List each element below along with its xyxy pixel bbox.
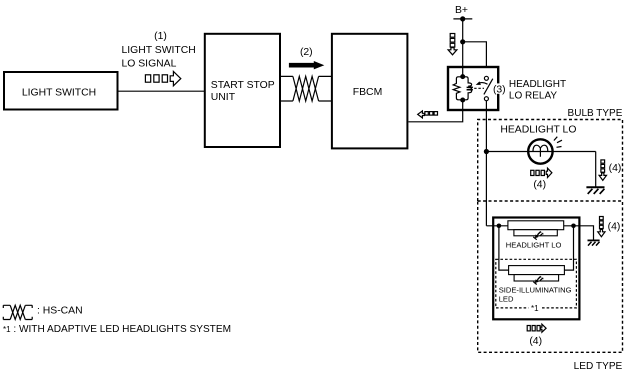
connector: LED unit (3 squares + open arrow right) (527, 324, 546, 332)
node: bulb feed junction (484, 149, 489, 154)
label (3) (493, 83, 506, 95)
wire: feed into LED unit and to ground (486, 226, 593, 241)
wire: light switch to start stop unit (118, 90, 205, 92)
svg-text:: HS-CAN: : HS-CAN (37, 306, 83, 317)
dashed box: led type (478, 201, 623, 352)
connector: LED ground (3 squares + open arrow down) (598, 217, 605, 237)
svg-text:(4): (4) (529, 336, 542, 347)
wire: FBCM to relay coil (408, 100, 462, 122)
svg-text:(4): (4) (609, 163, 622, 174)
dashed box: side-illuminating led (*1) (496, 259, 577, 308)
arrow (2) black block arrow (289, 61, 324, 69)
wire through bulb (486, 151, 595, 153)
svg-text:LO SIGNAL: LO SIGNAL (122, 58, 177, 69)
LED module: headlight lo (506, 221, 564, 250)
HS-CAN bus: twisted pair between start stop unit and FBCM (281, 76, 332, 101)
connector: FBCM output (open arrow left + 3 squares) (418, 111, 438, 118)
connector: bulb ground (3 squares + open arrow down) (599, 160, 606, 181)
light rays (554, 137, 562, 148)
svg-text:BULB TYPE: BULB TYPE (568, 108, 623, 119)
svg-text:(3): (3) (493, 85, 506, 96)
wire: relay switch down to lamps (485, 101, 487, 226)
wire: led module left drop (499, 226, 509, 270)
node: led left (497, 224, 502, 229)
wire: led module right drop (564, 226, 573, 270)
node: relay coil top (460, 74, 465, 79)
svg-text:START STOP: START STOP (211, 80, 275, 91)
legend: HS-CAN twisted pair symbol (3, 305, 32, 319)
svg-text:LIGHT SWITCH: LIGHT SWITCH (22, 87, 96, 98)
svg-text:(1): (1) (154, 31, 167, 42)
relay box (448, 67, 498, 110)
svg-text:SIDE-ILLUMINATING: SIDE-ILLUMINATING (499, 286, 572, 295)
relay actuation curved arrow (476, 81, 488, 85)
connector: bulb (3 squares + open arrow right) (531, 168, 552, 177)
wire: branch to relay switch (463, 42, 487, 67)
svg-text:LED: LED (499, 295, 514, 304)
LED symbol 1 (533, 231, 543, 240)
B+ power supply (453, 5, 472, 22)
node: led right (571, 224, 576, 229)
svg-text:LO RELAY: LO RELAY (509, 91, 557, 102)
svg-text:(4): (4) (608, 221, 621, 232)
bulb: headlight lo (486, 137, 595, 164)
svg-text:HEADLIGHT LO: HEADLIGHT LO (500, 124, 576, 135)
svg-text:HEADLIGHT LO: HEADLIGHT LO (506, 241, 562, 250)
relay actuation dashed link (474, 87, 484, 89)
ground: LED (588, 240, 600, 245)
node: relay coil bottom (460, 98, 465, 103)
box: FBCM (332, 34, 408, 149)
svg-text:FBCM: FBCM (353, 87, 382, 98)
svg-text:*1: *1 (531, 304, 539, 313)
box: LIGHT SWITCH (4, 72, 118, 110)
wire: B+ down to relay coil (462, 19, 464, 77)
dashed box: bulb type (478, 120, 623, 202)
bulb filament (533, 145, 548, 157)
svg-text:LIGHT SWITCH: LIGHT SWITCH (122, 45, 196, 56)
svg-text:*1 : WITH ADAPTIVE LED HEADLIG: *1 : WITH ADAPTIVE LED HEADLIGHTS SYSTEM (3, 324, 231, 335)
connector: light switch lo signal (3 squares + open arrow right) (145, 71, 180, 85)
svg-text:(2): (2) (300, 47, 313, 58)
wire: bulb to ground (595, 152, 597, 188)
label *1 on dashed border (529, 304, 542, 313)
svg-text:(4): (4) (533, 179, 546, 190)
box: LED headlight unit (493, 218, 579, 320)
relay switch (484, 76, 493, 100)
connector: B+ feed (3 squares + open arrow down) (448, 34, 457, 55)
svg-text:B+: B+ (455, 5, 468, 16)
svg-text:LED TYPE: LED TYPE (574, 361, 623, 372)
LED symbol 2 (533, 276, 543, 285)
svg-text:UNIT: UNIT (211, 92, 236, 103)
svg-text:HEADLIGHT: HEADLIGHT (509, 79, 566, 90)
relay coil + resistor (parallel) (453, 77, 473, 100)
ground: bulb (586, 187, 604, 194)
box: START STOP UNIT (205, 34, 280, 147)
LED module: side-illuminating led (499, 266, 572, 304)
node: B+ branch junction (460, 39, 465, 44)
